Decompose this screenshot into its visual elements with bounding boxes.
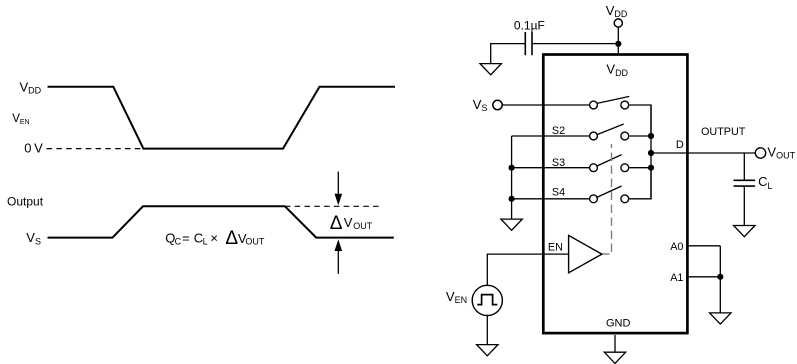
wire capacitor right plate to VDD junction (533, 43, 619, 45)
svg-text:A1: A1 (670, 272, 683, 284)
arrow down to dashed level (335, 172, 343, 206)
wire VEN waveform trace (48, 87, 396, 149)
wire VEN source to ground (486, 316, 488, 345)
svg-text:EN: EN (548, 242, 563, 254)
capacitor CL plates (734, 180, 756, 186)
terminal VDD circle (614, 19, 622, 27)
ground symbol CL (734, 226, 755, 237)
wire left bus S2 to ground (511, 136, 513, 219)
wire CL to ground (743, 187, 745, 226)
wire left bus to S2 pole (512, 135, 589, 137)
arrow up to settled level (335, 239, 343, 274)
wire VS to switch S1 pole (503, 104, 590, 106)
pulse waveform glyph inside source (477, 295, 497, 305)
ground symbol bypass cap (480, 64, 501, 75)
node S2 bus junction dot (648, 133, 654, 139)
wire A1 pin to right vertical (687, 276, 720, 278)
wire junction down to box top (617, 44, 619, 55)
ground symbol left bus (501, 219, 522, 230)
node S3 bus junction dot (648, 165, 654, 171)
capacitor C bypass plates (525, 32, 532, 55)
wire left bus to S3 pole (512, 167, 589, 169)
wire right bus S1 to S4 (650, 105, 652, 199)
node left bus S3 junction dot (509, 165, 515, 171)
wire S2 throw to right bus (629, 135, 651, 137)
node left bus S4 junction dot (509, 196, 515, 202)
ground symbol A0/A1 (710, 313, 731, 324)
svg-text:GND: GND (606, 318, 631, 330)
switch S3 (590, 155, 629, 172)
wire S3 throw to right bus (629, 167, 651, 169)
IC box outline (543, 55, 687, 334)
svg-text:A0: A0 (670, 241, 683, 253)
wire GND pin to ground (614, 335, 616, 352)
wire Output waveform trace (48, 206, 394, 237)
svg-text:D: D (676, 139, 684, 151)
op-amp EN buffer triangle (569, 235, 602, 272)
wire A0 pin to right vertical (687, 245, 720, 247)
wire S1 throw to right bus (629, 105, 651, 136)
dashed output high reference line (285, 205, 379, 207)
svg-text:0 V: 0 V (24, 141, 43, 156)
terminal VS circle (493, 100, 502, 109)
svg-text:S4: S4 (552, 187, 565, 199)
svg-text:S3: S3 (552, 157, 565, 169)
svg-text:OUTPUT: OUTPUT (701, 126, 746, 138)
wire left bus to S4 pole (512, 198, 589, 200)
dashed control line from EN buffer to switches (603, 144, 612, 254)
ground symbol VEN source (477, 345, 498, 356)
wire D to output (651, 152, 756, 154)
source VEN pulse generator circle (472, 285, 502, 315)
svg-text:0.1µF: 0.1µF (514, 18, 545, 32)
node VDD junction dot (615, 41, 621, 47)
ground symbol GND pin (604, 352, 625, 363)
wire A0/A1 vertical to ground (719, 246, 721, 313)
wire S4 throw to right bus (629, 168, 651, 199)
terminal VOUT circle (755, 148, 765, 158)
wire VEN source to EN buffer (487, 254, 568, 285)
dashed 0V reference line (47, 148, 143, 150)
switch S1 (unlabeled) (590, 96, 630, 109)
wire capacitor left plate to ground (491, 44, 526, 64)
wire VDD terminal to junction (617, 27, 619, 43)
svg-text:Output: Output (7, 194, 44, 208)
switch S4 (590, 186, 629, 203)
switch S2 (590, 124, 629, 140)
node D tap junction dot (648, 150, 654, 156)
node A1 junction dot (717, 274, 723, 280)
wire output tap down to CL (743, 153, 745, 180)
